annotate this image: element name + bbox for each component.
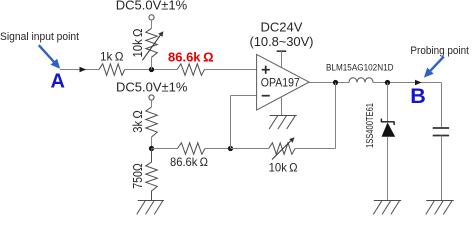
svg-text:OPA197: OPA197: [261, 76, 300, 90]
wire minus column vertical: [230, 96, 232, 149]
power terminal circle (lower 5V supply): [149, 95, 154, 100]
signal direction arrow on output wire: [415, 80, 422, 85]
svg-text:DC5.0V±1%: DC5.0V±1%: [116, 79, 188, 94]
variable resistor 10kΩ (feedback): [269, 143, 295, 155]
wire feedback vertical from output junction: [335, 83, 337, 149]
svg-text:750Ω: 750Ω: [131, 163, 145, 189]
svg-text:B: B: [410, 84, 426, 108]
wire coil to B corner: [373, 82, 442, 84]
wire 10k pot to junction: [151, 57, 153, 69]
variable resistor 10kΩ (top): [146, 28, 158, 57]
ferrite bead BLM15AG102N1D coil: [349, 78, 373, 83]
op-amp U1 OPA197 triangle: [257, 54, 310, 110]
callout arrow (input): [39, 45, 55, 62]
wire zener column top: [387, 83, 389, 122]
ground (zener): [373, 201, 401, 215]
wire feedback left segment to minus junction: [231, 148, 269, 150]
wire bottom junction to R86.6k bottom: [152, 148, 178, 150]
wire 3k to bottom junction: [151, 137, 153, 149]
svg-text:Probing point: Probing point: [410, 45, 469, 57]
power T bar for op-amp supply: [277, 50, 287, 52]
wire main input row A to R1k: [60, 69, 99, 71]
wire op-amp output to coil: [309, 82, 349, 84]
resistor 1kΩ: [99, 64, 125, 76]
node junction dot zener column: [385, 80, 390, 85]
wire capacitor to ground: [441, 136, 443, 201]
node junction dot output/feedback: [333, 80, 338, 85]
wire right corner down to capacitor: [441, 83, 443, 129]
wire R86.6k bottom to minus junction: [205, 148, 231, 150]
capacitor plates: [433, 127, 449, 129]
power terminal circle (top 5V supply): [149, 15, 154, 20]
svg-text:86.6k Ω: 86.6k Ω: [168, 50, 214, 65]
resistor 3kΩ: [146, 107, 158, 137]
svg-text:DC5.0V±1%: DC5.0V±1%: [116, 0, 188, 13]
svg-text:1k Ω: 1k Ω: [100, 50, 124, 64]
svg-text:1SS400TE61: 1SS400TE61: [365, 103, 376, 148]
svg-text:86.6k Ω: 86.6k Ω: [170, 155, 208, 169]
wire R86.6k top to op-amp + input: [205, 69, 257, 71]
svg-text:10k Ω: 10k Ω: [131, 29, 145, 58]
svg-text:(10.8~30V): (10.8~30V): [250, 34, 314, 49]
signal direction arrow on input wire: [80, 67, 87, 72]
wire R1k to R86.6k top: [125, 69, 177, 71]
svg-text:DC24V: DC24V: [261, 20, 303, 35]
wire terminal to 10k pot: [151, 20, 153, 28]
wiper arrow of feedback 10k pot: [272, 140, 292, 160]
svg-text:10k Ω: 10k Ω: [269, 161, 298, 175]
ground (below 750Ω): [137, 201, 164, 215]
resistor 86.6kΩ bottom: [178, 143, 206, 155]
op-amp + sign: [262, 66, 270, 74]
wire feedback right segment: [295, 148, 336, 150]
zener diode 1SS400TE61: [381, 119, 395, 137]
ground (op-amp): [269, 116, 297, 130]
svg-text:A: A: [50, 71, 64, 93]
resistor 86.6kΩ top (red label): [177, 64, 205, 76]
wire minus column to op-amp - input: [231, 95, 257, 97]
wire op-amp bottom to ground: [281, 96, 283, 115]
wire zener to ground: [387, 137, 389, 201]
resistor 750Ω: [146, 149, 158, 201]
node junction dot minus column: [228, 146, 233, 151]
wire supply to op-amp top: [281, 51, 283, 68]
wiper arrow of 10k pot: [142, 35, 160, 61]
ground (capacitor): [426, 201, 454, 215]
svg-text:Signal input point: Signal input point: [0, 31, 79, 43]
wire terminal to 3k resistor: [151, 100, 153, 107]
op-amp - sign: [262, 95, 270, 97]
svg-text:BLM15AG102N1D: BLM15AG102N1D: [326, 62, 394, 73]
node junction dot at main row / 10k pot column: [149, 67, 154, 72]
callout arrow (probing): [430, 57, 443, 71]
svg-text:3k Ω: 3k Ω: [131, 110, 145, 133]
node junction dot 3k/750/86.6k: [149, 146, 154, 151]
